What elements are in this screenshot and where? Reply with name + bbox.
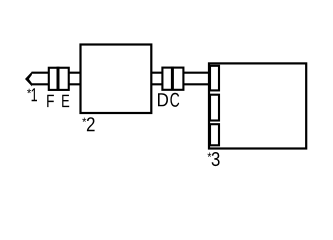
wire band box *2 to D/C bbox=[151, 73, 162, 85]
component box *3 bbox=[209, 63, 306, 148]
label *1 bbox=[27, 88, 37, 101]
pin 3 of box *3 bbox=[210, 124, 219, 145]
pin 2 of box *3 bbox=[210, 95, 219, 121]
connector D/C outer bbox=[162, 68, 183, 90]
connector F/E divider bbox=[57, 67, 60, 90]
wire arrow *1 (pointed harness arrow, left end) bbox=[32, 73, 50, 85]
connector F/E outer bbox=[49, 68, 69, 90]
connector D/C divider bbox=[171, 67, 174, 90]
label C bbox=[170, 93, 179, 107]
label D bbox=[158, 93, 168, 106]
wire arrow *1 tip chevron bbox=[25, 72, 32, 87]
wire band F/E to box *2 bbox=[69, 73, 81, 85]
label F bbox=[47, 95, 54, 107]
component box *2 bbox=[81, 45, 152, 114]
label *3 bbox=[208, 152, 220, 166]
wire band D/C to box *3 bbox=[183, 73, 210, 85]
label *2 bbox=[82, 117, 94, 131]
pin 1 of box *3 bbox=[210, 66, 219, 91]
label E bbox=[62, 95, 69, 107]
